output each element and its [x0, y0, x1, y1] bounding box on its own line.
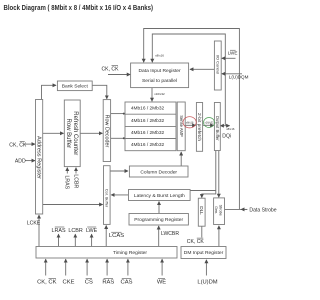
- wire CK into Data Input Register: [108, 74, 130, 76]
- svg-text:Row Decoder: Row Decoder: [103, 115, 109, 148]
- svg-text:x16/x32: x16/x32: [204, 121, 214, 125]
- wire RAS into Timing Register: [106, 259, 108, 275]
- svg-text:Timing Register: Timing Register: [113, 250, 147, 256]
- wire LWCBR into Programming Register: [158, 226, 160, 246]
- svg-text:DLL: DLL: [199, 206, 204, 215]
- annotation green ellipse: [204, 118, 215, 128]
- svg-text:2-bit prefetch: 2-bit prefetch: [196, 113, 202, 141]
- svg-text:L(U)DM: L(U)DM: [197, 279, 217, 285]
- wire ADD into Address Register: [25, 160, 35, 162]
- svg-text:Refresh Counter: Refresh Counter: [72, 111, 78, 155]
- svg-text:LCAS: LCAS: [109, 233, 124, 239]
- svg-text:Col. Buffer: Col. Buffer: [105, 189, 110, 208]
- wire LCBR stub from Timing Register: [74, 234, 76, 246]
- svg-text:DQi: DQi: [222, 134, 231, 140]
- svg-text:4Mb16 / 2Mb32: 4Mb16 / 2Mb32: [131, 130, 165, 136]
- box Programming Register: [129, 214, 188, 226]
- box 2-bit prefetch: [196, 103, 202, 152]
- wire DLL bottom to CK: [201, 226, 203, 237]
- label array cells: [131, 106, 165, 149]
- wire Refresh Counter to Row Decoder: [80, 132, 102, 134]
- svg-text:LCBR: LCBR: [73, 174, 79, 188]
- box Timing Register: [36, 247, 177, 259]
- svg-text:4Mb16 / 2Mb32: 4Mb16 / 2Mb32: [131, 142, 165, 148]
- svg-text:DM Input Register: DM Input Register: [184, 250, 224, 256]
- svg-text:x16/x32: x16/x32: [154, 92, 165, 96]
- wire feedback outer: DQ loop to Data Input Register: [144, 29, 240, 210]
- svg-text:LWE: LWE: [86, 228, 98, 234]
- junction dots on row decoder lines: [123, 113, 125, 115]
- wire 2-bit prefetch to Output Buffer: [203, 124, 214, 126]
- wire CAS into Timing Register: [127, 259, 129, 275]
- svg-text:4Mb16 / 2Mb32: 4Mb16 / 2Mb32: [131, 118, 165, 124]
- wire Sense AMP to Column Decoder: [180, 152, 182, 166]
- svg-text:ADD: ADD: [15, 159, 26, 165]
- svg-text:CK, CK: CK, CK: [9, 142, 27, 148]
- box Bank Select: [57, 81, 92, 91]
- box Data Input Register: [131, 63, 189, 88]
- wire Strobe Gen to Data Strobe: [225, 208, 248, 210]
- svg-text:Latency & Burst Length: Latency & Burst Length: [134, 193, 185, 199]
- wire Address Register to Bank Select: [42, 85, 57, 99]
- svg-text:CK, CK: CK, CK: [187, 239, 205, 245]
- svg-text:I/O Control: I/O Control: [216, 55, 221, 74]
- wire LWE stub from Timing Register: [91, 234, 93, 246]
- svg-text:4Mb16 / 2Mb32: 4Mb16 / 2Mb32: [131, 106, 165, 112]
- svg-text:RAS: RAS: [102, 279, 114, 285]
- svg-text:CS: CS: [85, 279, 93, 285]
- wire CK into Timing Register: [45, 259, 47, 275]
- box Strobe Gen: [214, 198, 225, 225]
- svg-text:Bank Select: Bank Select: [62, 84, 89, 90]
- wire Programming Register to Latency: [158, 202, 160, 214]
- wire Latency to Col Buffer: [111, 194, 128, 196]
- wire LCKE into Address Register: [38, 215, 40, 246]
- svg-text:LRAS: LRAS: [64, 176, 70, 190]
- svg-text:WE: WE: [157, 279, 166, 285]
- wire Address Register to Col Buffer: [43, 204, 103, 206]
- box Sense AMP: [177, 102, 185, 151]
- box memory bank array: [125, 102, 176, 151]
- svg-text:LWE: LWE: [228, 50, 238, 55]
- svg-text:Gen.: Gen.: [214, 206, 218, 214]
- svg-text:LCKE: LCKE: [27, 221, 41, 227]
- svg-text:CKE: CKE: [63, 279, 75, 285]
- box Col Buffer: [104, 166, 111, 225]
- box I/O Control: [214, 41, 221, 90]
- wire LCAS into Col Buffer: [105, 226, 107, 247]
- wire I/O Control to Data Input Register: [190, 68, 214, 70]
- svg-text:x8/x16: x8/x16: [155, 54, 164, 58]
- wire CS into Timing Register: [86, 259, 88, 275]
- box Address Register: [36, 100, 43, 215]
- wire LRAS stub from Timing Register: [58, 234, 60, 246]
- svg-text:Sense AMP: Sense AMP: [179, 115, 184, 137]
- wire DQ bidirectional pad: [220, 125, 229, 127]
- box Refresh Counter / Row Buffer: [64, 100, 80, 167]
- annotation red ellipse: [183, 117, 196, 128]
- wire feedback inner: DQ pad up and across: [152, 34, 225, 125]
- svg-text:Column Decoder: Column Decoder: [140, 169, 177, 175]
- box Latency & Burst Length: [129, 190, 191, 201]
- wire WE into Timing Register: [161, 259, 163, 275]
- box Row Decoder: [103, 100, 110, 162]
- wire Sense AMP to 2-bit prefetch: [185, 124, 195, 126]
- svg-text:Data Strobe: Data Strobe: [249, 207, 276, 213]
- wire Output Buffer down to Strobe Gen: [218, 151, 220, 197]
- svg-text:CK, CK: CK, CK: [102, 66, 120, 72]
- box Column Decoder: [129, 166, 188, 177]
- svg-text:Block Diagram ( 8Mbit x 8 / 4M: Block Diagram ( 8Mbit x 8 / 4Mbit x 16 I…: [4, 3, 154, 12]
- svg-text:Programming Register: Programming Register: [134, 217, 183, 223]
- wire DM Input Register to Strobe Gen: [218, 226, 220, 247]
- svg-text:Row Buffer: Row Buffer: [65, 119, 71, 149]
- wire Col Buffer to Column Decoder: [110, 170, 128, 172]
- svg-text:x8/x16: x8/x16: [226, 127, 235, 131]
- box DM Input Register: [181, 247, 226, 259]
- svg-text:Address Register: Address Register: [36, 136, 42, 179]
- wire LCBR into Refresh Counter: [75, 168, 77, 174]
- box DLL: [198, 198, 205, 226]
- svg-text:LRAS: LRAS: [51, 228, 65, 234]
- box Output Buffer: [214, 103, 220, 151]
- svg-text:Output Buffer: Output Buffer: [215, 116, 220, 141]
- wire LDQM stub into I/O Control: [222, 73, 242, 75]
- wire Output Buffer down to DLL: [202, 151, 216, 198]
- wire LRAS into Refresh Counter: [66, 168, 68, 174]
- wire LUDM into DM Input Register: [205, 260, 207, 276]
- svg-text:L(U)DQM: L(U)DQM: [229, 75, 249, 80]
- svg-text:CK, CK: CK, CK: [37, 279, 56, 285]
- wire Row Decoder to array row 3: [111, 137, 125, 139]
- svg-text:CAS: CAS: [121, 279, 133, 285]
- svg-text:x8/x16: x8/x16: [186, 120, 194, 124]
- wire Latency right to output timing: [190, 190, 216, 192]
- wire LWE stub into I/O Control: [222, 57, 236, 59]
- wire Row Decoder to array row 1: [111, 113, 125, 115]
- wire CKE into Timing Register: [65, 259, 67, 275]
- wire Address Register to Refresh Counter: [43, 132, 64, 134]
- wire Bank Select to Row Decoder: [92, 85, 107, 99]
- svg-text:LCBR: LCBR: [68, 228, 82, 234]
- svg-text:Serial to parallel: Serial to parallel: [142, 78, 177, 84]
- wire CK into Address Register: [25, 143, 35, 145]
- svg-text:LWCBR: LWCBR: [161, 231, 179, 237]
- svg-text:Data Input Register: Data Input Register: [139, 68, 182, 74]
- wire Data Input Register down to array: [151, 88, 153, 102]
